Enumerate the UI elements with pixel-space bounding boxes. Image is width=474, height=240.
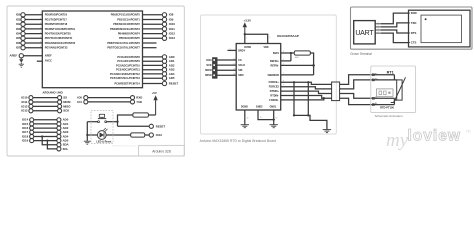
module pin1 dot — [425, 18, 427, 20]
watermark small url — [112, 144, 159, 147]
label UART — [355, 30, 374, 37]
svg-text:DGND: DGND — [241, 106, 248, 109]
svg-text:IO19: IO19 — [22, 139, 29, 143]
svg-text:IO13: IO13 — [156, 133, 163, 137]
svg-text:PD4/T0/XCK/PCINT20: PD4/T0/XCK/PCINT20 — [45, 31, 71, 35]
IC U1 pin AD4 — [110, 72, 175, 76]
UART pin 1 stub — [375, 22, 381, 24]
svg-text:SCL: SCL — [63, 147, 69, 151]
IC U1 pin IO4 left — [16, 31, 71, 35]
watermark myloview — [386, 128, 471, 152]
wire TB1 to RT1 S- — [340, 94, 395, 99]
svg-text:IO6: IO6 — [16, 41, 21, 45]
IC U1 pin IO5 left — [16, 36, 73, 40]
junction FORCE+ drop B — [307, 81, 309, 83]
label ISENSOR — [268, 74, 279, 77]
junction FORCE- RTDIN- — [323, 97, 325, 99]
label GND2 — [256, 106, 263, 109]
label 400 — [295, 57, 299, 59]
connector pin IO13 to SCK — [21, 109, 70, 113]
label FORCE- — [269, 99, 279, 102]
svg-text:PC1/ADC1/PCINT9: PC1/ADC1/PCINT9 — [117, 59, 140, 63]
svg-text:MAX31865AAP: MAX31865AAP — [277, 34, 299, 38]
IC U1 pin AD0 — [117, 55, 174, 59]
svg-text:IO11: IO11 — [21, 100, 27, 104]
svg-text:RESET: RESET — [169, 81, 179, 85]
connector pin IO14 to AD0 — [22, 118, 69, 122]
capacitor at AREF — [19, 58, 23, 64]
svg-text:3: 3 — [230, 49, 231, 51]
svg-text:IO10: IO10 — [169, 22, 176, 26]
svg-text:SDO: SDO — [238, 74, 243, 77]
svg-text:AVCC: AVCC — [45, 59, 52, 63]
svg-text:RTD-PT100: RTD-PT100 — [380, 105, 394, 109]
svg-text:PC5/ADC5/SCL/PCINT13: PC5/ADC5/SCL/PCINT13 — [110, 76, 140, 80]
svg-text:IO13: IO13 — [21, 109, 28, 113]
ground RTD return — [323, 130, 331, 133]
wire bottom link to ground — [294, 115, 327, 129]
svg-text:VDD: VDD — [263, 46, 268, 49]
svg-text:CTS: CTS — [411, 41, 417, 45]
svg-text:DRDY: DRDY — [238, 49, 245, 52]
wire TB1 to RT1 S+ — [340, 80, 395, 89]
svg-text:MOSI: MOSI — [63, 100, 70, 104]
label DVDD — [244, 46, 251, 49]
svg-text:PC3/ADC3/PCINT11: PC3/ADC3/PCINT11 — [116, 68, 140, 72]
label IO10 — [206, 59, 212, 62]
label MOSI — [205, 69, 212, 72]
wire +3.3V to DVDD and VDD — [245, 34, 268, 43]
wire R3 to REFIN- node — [310, 53, 313, 65]
svg-text:Grove Terminal: Grove Terminal — [350, 52, 372, 56]
svg-text:REFIN+: REFIN+ — [270, 60, 280, 63]
pad S+ — [372, 79, 378, 81]
wire ISENSOR up to REFIN- node — [313, 65, 315, 75]
IC U1 pin IO2 left — [16, 22, 68, 26]
svg-text:TM: TM — [466, 130, 471, 134]
svg-text:2: 2 — [378, 25, 379, 27]
connector pin IO18 to AD4 — [22, 134, 69, 138]
grove terminal outer box — [351, 7, 473, 49]
svg-text:+5V: +5V — [152, 91, 157, 95]
svg-text:PB4/MISO/PCINT4: PB4/MISO/PCINT4 — [118, 31, 141, 35]
pad E- — [372, 103, 377, 105]
svg-text:PB1/OC1A/PCINT1: PB1/OC1A/PCINT1 — [117, 17, 140, 21]
svg-text:SDI: SDI — [238, 69, 242, 72]
svg-text:PB6/TOSC1/XTAL1/PCINT6: PB6/TOSC1/XTAL1/PCINT6 — [107, 41, 140, 45]
svg-text:IO9: IO9 — [169, 17, 174, 21]
svg-text:AD5: AD5 — [169, 76, 175, 80]
IC U1 pin AD5 — [110, 76, 175, 80]
svg-text:Arduino 328: Arduino 328 — [152, 150, 171, 154]
terminal block TB1 — [332, 82, 340, 101]
connector pin IO16 to AD2 — [22, 126, 69, 130]
svg-text:1: 1 — [378, 22, 379, 24]
svg-text:MISO: MISO — [63, 104, 71, 108]
label SCK — [206, 64, 211, 67]
svg-text:LED & Reset: LED & Reset — [96, 140, 111, 143]
label REFIN- — [271, 64, 280, 67]
wire UART pin2 to TXD — [381, 23, 409, 27]
wire SDA branch — [42, 137, 57, 145]
label REFIN+ — [270, 60, 280, 63]
svg-text:19: 19 — [233, 74, 235, 76]
svg-text:FORCE2: FORCE2 — [269, 86, 280, 89]
IC U1 pin IO3 left — [16, 27, 76, 31]
svg-text:IO4: IO4 — [16, 32, 21, 36]
svg-text:TXD: TXD — [411, 21, 417, 25]
connector pin IO17 to AD3 — [22, 130, 69, 134]
svg-text:loview: loview — [408, 128, 461, 145]
wire REFIN+ up to BIAS — [290, 53, 292, 61]
IC U1 pin IO1 left — [16, 17, 67, 21]
connector pin IO15 to AD1 — [22, 122, 69, 126]
svg-text:18: 18 — [233, 69, 235, 71]
module pin TXD — [407, 21, 416, 25]
svg-text:SS: SS — [63, 96, 67, 100]
svg-text:RTDIN+: RTDIN+ — [270, 90, 280, 93]
junction FORCE+ drop A — [293, 81, 295, 83]
IC U1 pin AD2 — [116, 63, 175, 67]
connector pin IO0 to RXD — [77, 96, 142, 100]
IC U1 pin RESET — [114, 81, 178, 85]
chip U2 pin DGND stub — [245, 110, 249, 124]
wire FORCE- join RTDIN- — [281, 98, 324, 100]
svg-text:IO5: IO5 — [16, 36, 21, 40]
wire REFIN- — [281, 63, 314, 65]
svg-text:www.myloview.com | schematic d: www.myloview.com | schematic diagram — [112, 144, 159, 147]
wire TB1 to RT1 E- — [340, 98, 395, 104]
connector pin IO19 to AD5 — [22, 139, 69, 143]
wire BIAS to resistor R3 — [281, 51, 295, 53]
label VDD — [263, 46, 268, 49]
svg-text:DVDD: DVDD — [244, 46, 251, 49]
wire IO10 to CS — [217, 58, 242, 62]
wire S1 left to ground rail — [87, 121, 97, 123]
ground DGND — [241, 125, 249, 128]
ground symbol LED and Reset — [84, 141, 91, 144]
svg-text:IO3: IO3 — [16, 27, 21, 31]
junction +3.3V node — [244, 33, 246, 35]
svg-text:IO11: IO11 — [169, 27, 175, 31]
pin number 1 VDD — [269, 37, 270, 39]
label DGND — [241, 106, 248, 109]
svg-text:PC4/ADC4/SDA/PCINT12: PC4/ADC4/SDA/PCINT12 — [110, 72, 140, 76]
wire FORCE+ to terminal — [281, 80, 332, 84]
IC U1 pin AREF — [10, 54, 53, 58]
svg-text:IO1: IO1 — [77, 100, 82, 104]
chip U2 pin DRDY stub — [228, 49, 246, 53]
section header ARDUINO UNO — [43, 91, 63, 95]
wire S1 right to reset node — [107, 121, 118, 123]
svg-text:16: 16 — [247, 117, 249, 119]
svg-text:PD3/INT1/OC2B/PCINT19: PD3/INT1/OC2B/PCINT19 — [45, 27, 76, 31]
junction bottom link B — [307, 114, 309, 116]
svg-text:2: 2 — [246, 37, 247, 39]
resistor R2 LED series — [131, 133, 145, 137]
pin number 2 DVDD — [246, 37, 247, 39]
svg-text:RTS: RTS — [411, 31, 417, 35]
svg-text:IO10: IO10 — [206, 59, 212, 62]
junction LED anode rail — [86, 134, 88, 136]
label RTD-PT100 — [380, 105, 394, 109]
IC U1 pin XTAL1 stub — [107, 41, 156, 45]
label GND1 — [270, 106, 277, 109]
svg-text:IO10: IO10 — [21, 96, 28, 100]
IC U1 pin IO8 right — [111, 13, 174, 17]
wire MOSI to SDI — [217, 69, 243, 73]
svg-text:PB3/MOSI/OC2A/PCINT3: PB3/MOSI/OC2A/PCINT3 — [110, 27, 140, 31]
svg-text:IO0: IO0 — [16, 13, 21, 17]
junction REFIN- node — [312, 64, 315, 67]
svg-text:E-: E- — [375, 103, 377, 105]
svg-text:4: 4 — [378, 31, 379, 33]
wire reset node to RESET pin — [118, 125, 150, 127]
UART box — [354, 21, 376, 44]
UART pin 2 stub — [375, 25, 381, 27]
svg-text:FORCE-: FORCE- — [269, 99, 279, 102]
IC U1 pin IO9 right — [117, 17, 174, 21]
label FORCE2 — [269, 86, 280, 89]
label RT1 — [387, 70, 394, 74]
pad E+ — [372, 73, 378, 75]
svg-text:AREF: AREF — [45, 54, 52, 58]
svg-text:13: 13 — [260, 117, 262, 119]
dashed box LED and Reset — [91, 111, 113, 144]
svg-text:IO1: IO1 — [16, 17, 21, 21]
wire RT1 top node — [394, 75, 396, 80]
svg-text:PB5/SCK/PCINT5: PB5/SCK/PCINT5 — [119, 36, 140, 40]
svg-text:PD6/AIN0/OC2A/PCINT22: PD6/AIN0/OC2A/PCINT22 — [45, 41, 76, 45]
svg-text:IO12: IO12 — [21, 104, 28, 108]
pin SDA — [57, 143, 69, 147]
junction IO19 SCL branch — [46, 139, 48, 141]
IC U1 pin IO12 right — [118, 31, 176, 35]
svg-text:SCK: SCK — [63, 109, 70, 113]
ground GND1 — [270, 125, 278, 128]
wire FORCE+ drop A vertical — [293, 82, 295, 115]
RTD element PT100 — [391, 77, 406, 102]
wire FORCE2 to terminal — [281, 85, 332, 89]
label LED and Reset — [96, 140, 111, 143]
wire R1 to reset node — [118, 115, 133, 126]
svg-text:RXD: RXD — [411, 11, 417, 15]
IC U1 pin IO7 left — [16, 46, 68, 50]
caption Grove Terminal — [350, 52, 372, 56]
svg-text:MISO: MISO — [205, 74, 211, 77]
svg-text:GND2: GND2 — [256, 106, 263, 109]
wire UART pin1 to RXD — [381, 13, 409, 24]
junction IO18 SDA branch — [41, 135, 43, 137]
connector J1 SPI header — [213, 58, 217, 78]
svg-text:ARDUINO UNO: ARDUINO UNO — [43, 91, 63, 95]
IC U1 pin IO0 left — [16, 13, 68, 17]
pin IO13 — [149, 133, 162, 137]
label RTDIN- — [270, 94, 279, 97]
svg-text:17: 17 — [233, 64, 235, 66]
display box PT100 — [377, 89, 394, 96]
wire MISO to SDO — [217, 74, 244, 78]
label MISO — [205, 74, 211, 77]
IC U1 pin AD1 — [117, 59, 174, 63]
chip U2 MAX31865 body — [236, 44, 281, 111]
svg-text:GND1: GND1 — [270, 106, 277, 109]
IC U1 pin IO13 right — [119, 36, 175, 40]
pushbutton S1 — [98, 114, 107, 122]
resistor R1 reset pullup — [133, 113, 149, 117]
caption Schematic Animation — [375, 114, 403, 118]
wire FORCE+ drop B vertical — [307, 82, 309, 115]
IC U1 pin IO10 right — [113, 22, 175, 26]
svg-text:RESET: RESET — [156, 124, 166, 128]
svg-text:IO12: IO12 — [169, 32, 176, 36]
svg-text:PD7/AIN1/PCINT23: PD7/AIN1/PCINT23 — [45, 46, 68, 50]
svg-text:IO13: IO13 — [169, 36, 176, 40]
chip U2 pin GND2 stub — [258, 110, 274, 120]
LED D1 — [97, 128, 107, 139]
IC U1 pin AVCC — [37, 59, 52, 63]
svg-text:PD1/TXD/PCINT17: PD1/TXD/PCINT17 — [45, 17, 68, 21]
wire UART pin4 to CTS — [381, 33, 409, 43]
svg-text:Schematic Animation: Schematic Animation — [375, 114, 403, 118]
svg-text:IO2: IO2 — [16, 22, 21, 26]
wire R2 to IO13 pin — [145, 134, 150, 136]
svg-text:PB7/TOSC2/XTAL2/PCINT7: PB7/TOSC2/XTAL2/PCINT7 — [107, 46, 140, 50]
chip U2 pin GND1 stub — [274, 110, 278, 124]
UART pin 4 stub — [375, 31, 381, 33]
junction bottom link A — [293, 114, 295, 116]
svg-text:AREF: AREF — [10, 54, 18, 58]
svg-text:PC0/ADC0/PCINT8: PC0/ADC0/PCINT8 — [117, 55, 140, 59]
sheet frame Arduino 328 — [7, 6, 184, 156]
junction reset node — [116, 121, 118, 123]
module pin RTS — [407, 31, 417, 35]
svg-text:IO7: IO7 — [16, 46, 21, 50]
svg-text:16: 16 — [233, 58, 235, 60]
power +5V — [152, 91, 158, 115]
pad S- — [372, 97, 377, 99]
wire RTDIN- to terminal — [281, 96, 332, 99]
wire RT1 bottom node — [394, 98, 396, 104]
wire ISENSOR — [281, 73, 314, 75]
sheet frame MAX31865 breakout — [201, 15, 337, 134]
module pin RXD — [407, 11, 417, 15]
svg-text:IO8: IO8 — [169, 13, 174, 17]
svg-text:RTDIN-: RTDIN- — [270, 94, 279, 97]
IC U1 pin XTAL2 stub — [107, 46, 156, 50]
svg-text:PD0/RXD/PCINT16: PD0/RXD/PCINT16 — [45, 13, 68, 17]
svg-text:PD2/INT0/PCINT18: PD2/INT0/PCINT18 — [45, 22, 68, 26]
wire TB1 to RT1 E+ — [340, 75, 395, 85]
caption Arduino MAX31865 RTD to Digital Breakout Board — [200, 139, 277, 143]
connector pin IO11 to MOSI — [21, 100, 70, 104]
title box Arduino 328 — [139, 145, 185, 156]
connector pin IO10 to SS — [21, 96, 67, 100]
sensor box RT1 frame — [371, 66, 416, 113]
svg-text:PC2/ADC2/PCINT10: PC2/ADC2/PCINT10 — [116, 63, 140, 67]
pin RESET — [149, 124, 165, 128]
svg-text:1: 1 — [269, 37, 270, 39]
svg-text:PC6/RESET/PCINT14: PC6/RESET/PCINT14 — [114, 81, 140, 85]
svg-text:PB0/ICP1/CLKO/PCINT0: PB0/ICP1/CLKO/PCINT0 — [111, 13, 141, 17]
connector pin IO1 to TXD — [77, 100, 142, 104]
svg-text:SCK: SCK — [206, 64, 211, 67]
svg-text:S-: S- — [375, 97, 377, 99]
wire RTDIN+ to terminal — [281, 91, 332, 93]
module pin CTS — [407, 41, 417, 45]
svg-text:SCLK: SCLK — [238, 64, 245, 67]
IC U1 pin IO11 right — [110, 27, 175, 31]
junction GND1 GND2 — [273, 118, 275, 120]
svg-text:FORCE+: FORCE+ — [269, 81, 280, 84]
pin SCL — [57, 147, 69, 151]
svg-text:+3.3V: +3.3V — [244, 18, 252, 22]
wire SCL branch — [47, 141, 57, 149]
wire REFIN+ — [281, 59, 291, 61]
svg-text:CS: CS — [238, 59, 242, 62]
UART pin 3 stub — [375, 28, 381, 30]
label MAX31865AAP — [277, 34, 299, 38]
label RTDIN+ — [270, 90, 280, 93]
wire rail to LED — [87, 134, 97, 136]
svg-text:RT1: RT1 — [387, 70, 394, 74]
wire +5V to resistor R1 — [148, 114, 155, 116]
svg-text:my: my — [386, 130, 409, 151]
ground rail vertical — [86, 122, 88, 141]
svg-text:BIAS: BIAS — [273, 52, 279, 55]
label BIAS — [273, 52, 279, 55]
svg-text:ISENSOR: ISENSOR — [268, 74, 279, 77]
label FORCE+ — [269, 81, 280, 84]
wire LED to resistor R2 — [106, 134, 131, 136]
svg-text:MOSI: MOSI — [205, 69, 212, 72]
IC U1 pin IO6 left — [16, 41, 76, 45]
svg-text:Arduino MAX31865 RTD to Digita: Arduino MAX31865 RTD to Digital Breakout… — [200, 139, 277, 143]
resistor R3 reference 400 — [294, 51, 310, 55]
svg-text:TXD: TXD — [136, 100, 142, 104]
svg-text:10: 10 — [276, 117, 278, 119]
junction BIAS REFIN+ — [290, 52, 292, 54]
ground at AREF — [19, 64, 24, 67]
wire UART pin3 to RTS — [381, 30, 409, 33]
power +3.3V — [243, 18, 252, 34]
IC U1 pin AD3 — [116, 68, 175, 72]
IC U1 ATMEGA328 body — [42, 11, 142, 88]
svg-text:3: 3 — [378, 28, 379, 30]
module box serial — [409, 10, 471, 47]
wire SCK to SCLK — [217, 64, 245, 68]
svg-text:UART: UART — [355, 30, 374, 37]
svg-text:REFIN-: REFIN- — [271, 64, 280, 67]
module inner outline — [421, 15, 462, 42]
svg-text:PD5/T1/OC0B/PCINT21: PD5/T1/OC0B/PCINT21 — [45, 36, 73, 40]
svg-text:PB2/SS/OC1B/PCINT2: PB2/SS/OC1B/PCINT2 — [113, 22, 140, 26]
connector pin IO12 to MISO — [21, 104, 71, 108]
